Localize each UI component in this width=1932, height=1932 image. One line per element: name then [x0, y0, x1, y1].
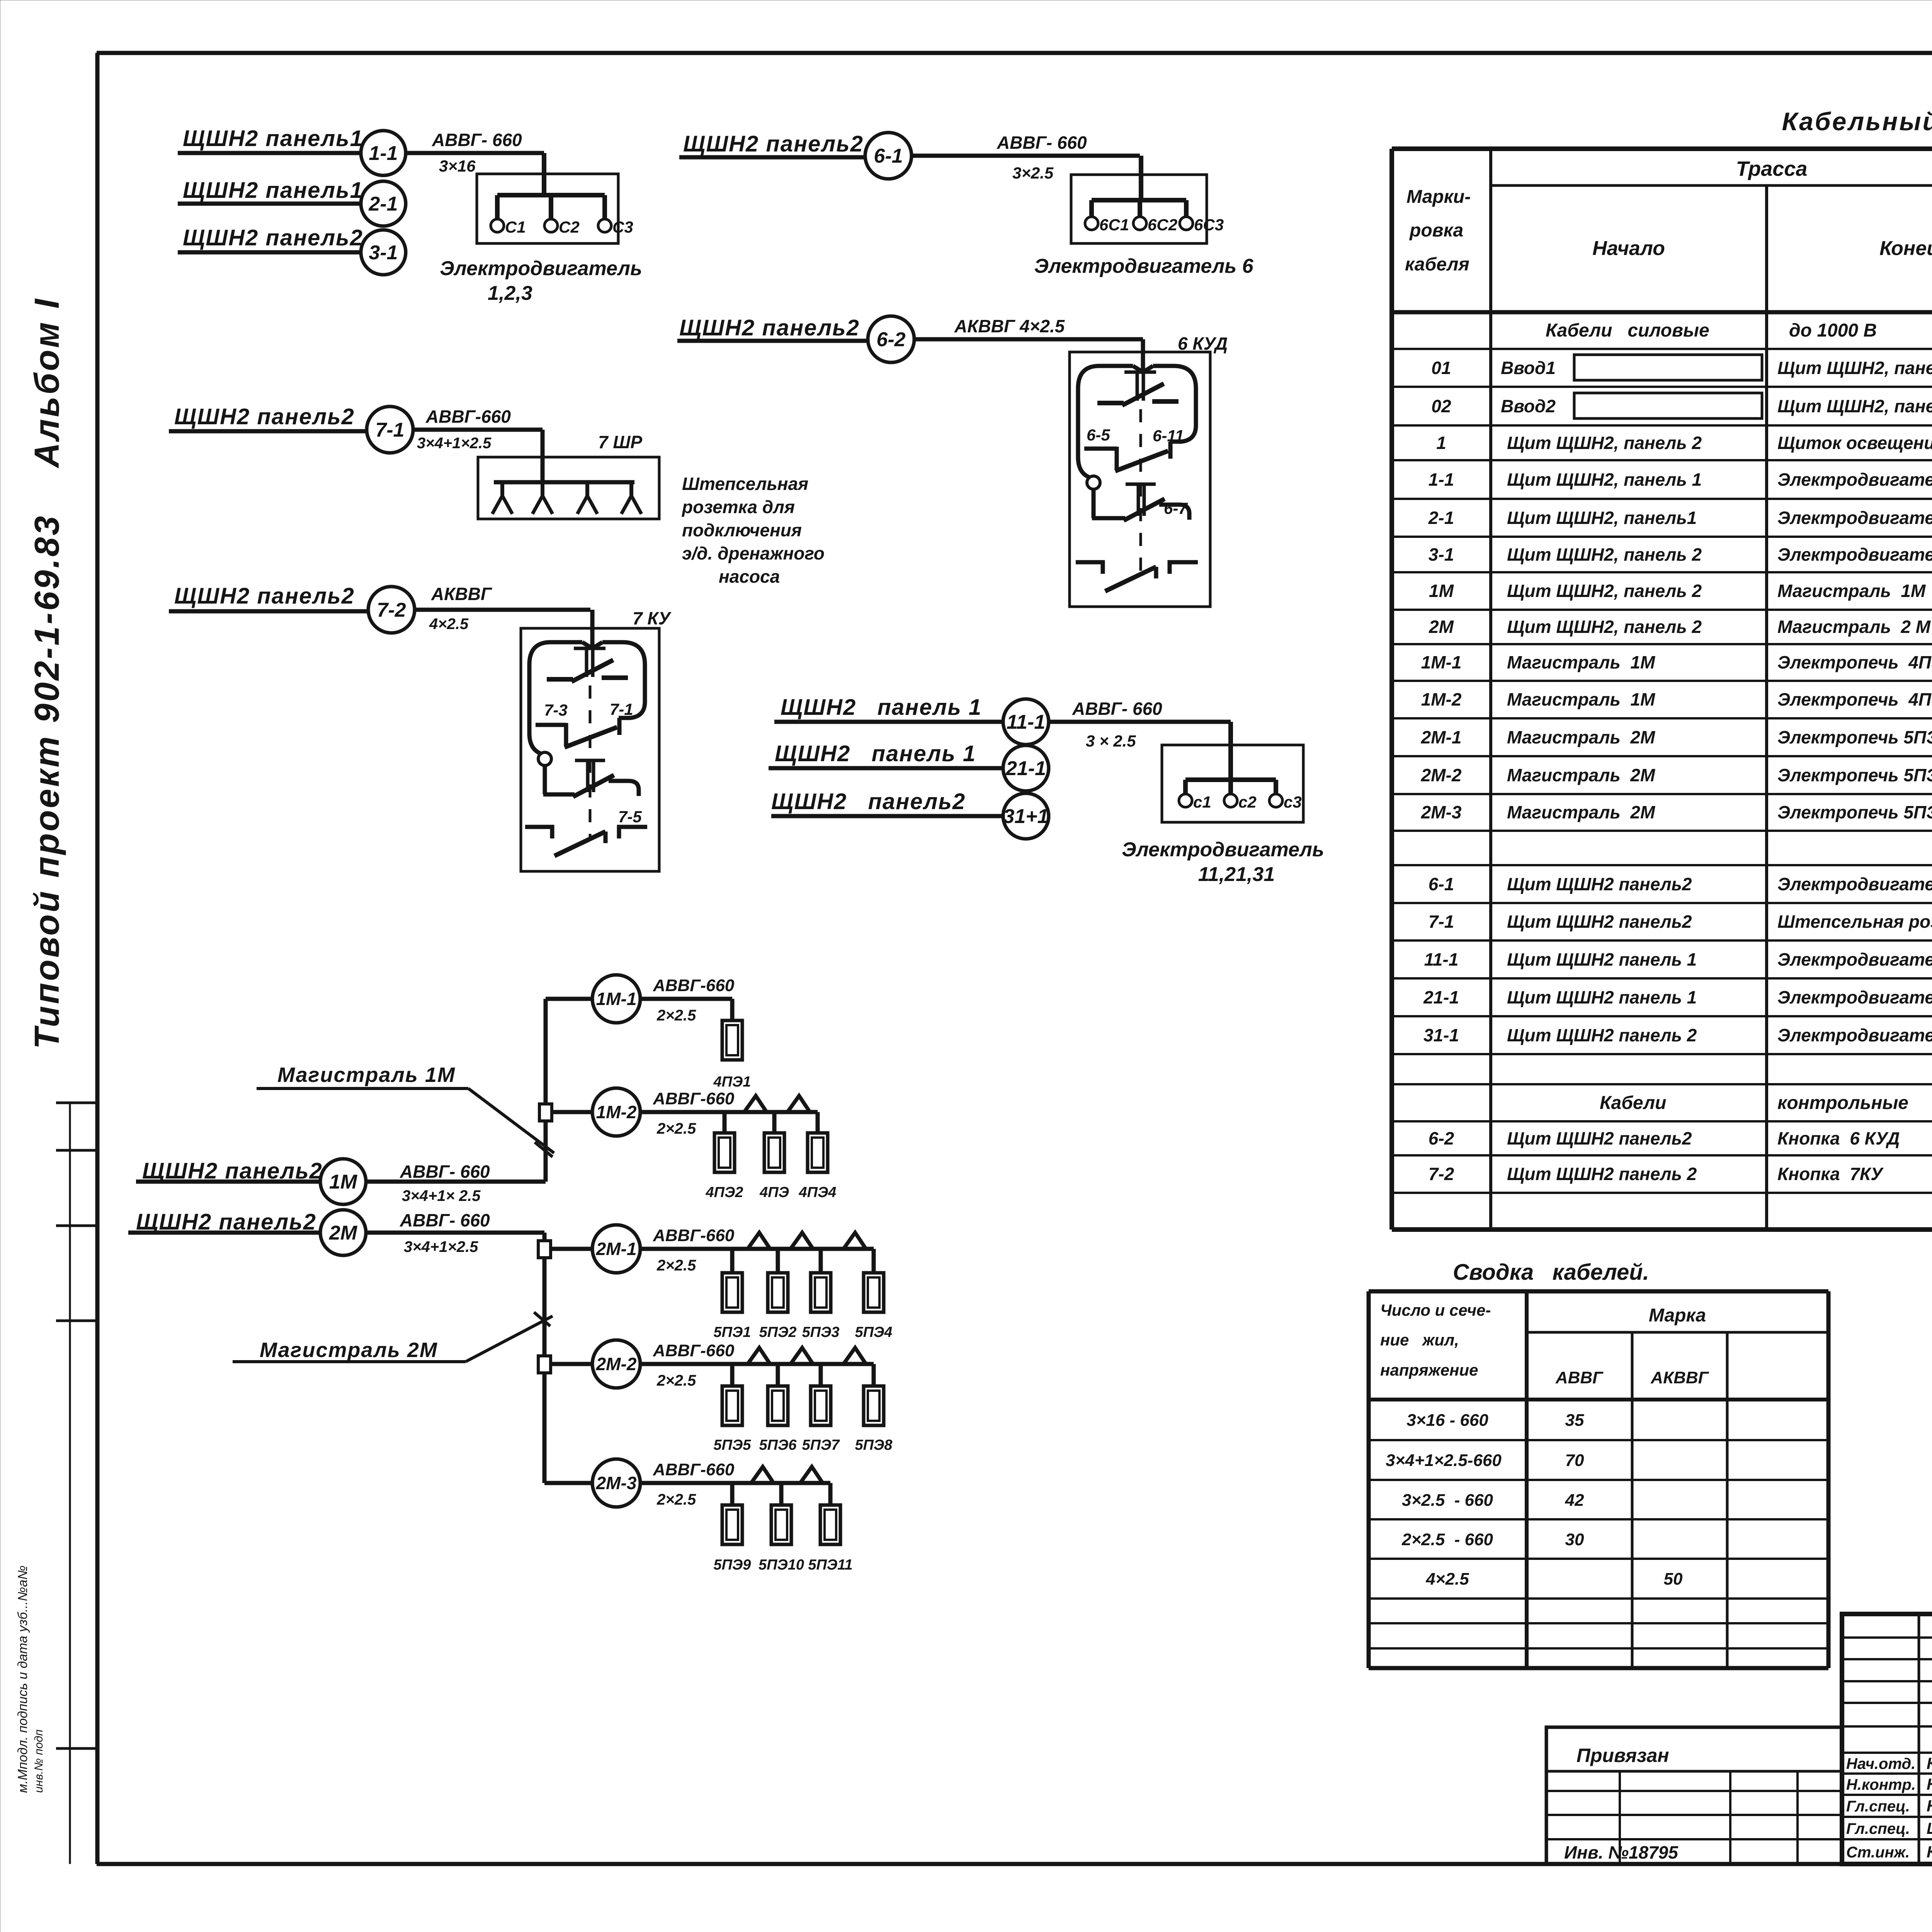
svg-text:4ПЭ1: 4ПЭ1	[713, 1074, 751, 1090]
svg-text:АКВВГ: АКВВГ	[1650, 1368, 1709, 1387]
svg-text:Кабели силовые: Кабели силовые	[1546, 320, 1709, 341]
svg-text:Н.контр.: Н.контр.	[1846, 1776, 1916, 1793]
svg-text:ЩШН2 панель2: ЩШН2 панель2	[771, 789, 966, 814]
svg-text:Кулагин: Кулагин	[1927, 1754, 1932, 1772]
svg-text:6-1: 6-1	[1429, 874, 1454, 894]
svg-text:3×16 - 660: 3×16 - 660	[1406, 1411, 1488, 1430]
svg-text:ЩШН2 панель2: ЩШН2 панель2	[174, 583, 355, 609]
svg-text:Магистраль 2 М: Магистраль 2 М	[1777, 617, 1931, 637]
svg-text:3×4+1× 2.5: 3×4+1× 2.5	[402, 1187, 481, 1204]
svg-text:АВВГ- 660: АВВГ- 660	[1072, 699, 1162, 719]
svg-text:5ПЭ6: 5ПЭ6	[759, 1437, 797, 1453]
svg-text:Магистраль 2М: Магистраль 2М	[1507, 727, 1656, 747]
svg-text:Щит ЩШН2 панель 2: Щит ЩШН2 панель 2	[1507, 1025, 1697, 1045]
svg-text:1-1: 1-1	[369, 142, 398, 165]
svg-text:С1: С1	[505, 218, 526, 236]
svg-text:6-5: 6-5	[1087, 426, 1110, 444]
svg-text:ЩШН2 панель1: ЩШН2 панель1	[183, 126, 363, 151]
svg-text:2М: 2М	[329, 1222, 358, 1244]
svg-text:с2: с2	[1238, 793, 1257, 811]
svg-text:6-7: 6-7	[1164, 499, 1188, 517]
svg-text:11,21,31: 11,21,31	[1198, 863, 1275, 886]
svg-text:6С3: 6С3	[1194, 216, 1224, 234]
svg-text:Число и сече-: Число и сече-	[1380, 1301, 1491, 1319]
svg-text:Щит ЩШН2 панель 1: Щит ЩШН2 панель 1	[1507, 987, 1697, 1007]
svg-text:ЩШН2 панель2: ЩШН2 панель2	[183, 225, 363, 250]
svg-text:Электропечь 4ПЭ2: Электропечь 4ПЭ2	[1777, 689, 1932, 709]
svg-text:2×2.5: 2×2.5	[656, 1007, 696, 1024]
svg-text:21-1: 21-1	[1005, 757, 1046, 780]
svg-text:1М-2: 1М-2	[596, 1102, 637, 1122]
svg-text:АВВГ: АВВГ	[1555, 1368, 1604, 1387]
svg-text:Щит ЩШН2, панель1: Щит ЩШН2, панель1	[1507, 508, 1697, 528]
svg-text:Ввод1: Ввод1	[1501, 358, 1556, 378]
svg-text:2×2.5 - 660: 2×2.5 - 660	[1401, 1530, 1493, 1549]
svg-text:э/д. дренажного: э/д. дренажного	[682, 543, 825, 563]
svg-text:Ввод2: Ввод2	[1501, 396, 1556, 416]
svg-text:Электродвигатель 2: Электродвигатель 2	[1777, 508, 1932, 528]
svg-text:Нач.отд.: Нач.отд.	[1846, 1755, 1915, 1772]
svg-text:АВВГ-660: АВВГ-660	[653, 1341, 735, 1360]
svg-text:Марки-: Марки-	[1406, 187, 1471, 207]
svg-text:1М-2: 1М-2	[1421, 689, 1462, 709]
svg-text:Щит ЩШН2, панель 1: Щит ЩШН2, панель 1	[1507, 469, 1702, 490]
svg-text:Электродвигатель: Электродвигатель	[1122, 838, 1324, 861]
svg-text:АВВГ-660: АВВГ-660	[653, 1460, 735, 1479]
svg-text:Электродвигатель 3: Электродвигатель 3	[1777, 544, 1932, 565]
svg-text:инв.№ подп: инв.№ подп	[32, 1730, 45, 1793]
svg-text:11-1: 11-1	[1424, 949, 1459, 969]
svg-text:контрольные: контрольные	[1777, 1093, 1908, 1113]
svg-text:Щит ЩШН2, панель 2: Щит ЩШН2, панель 2	[1507, 617, 1702, 637]
svg-text:01: 01	[1431, 358, 1451, 378]
svg-text:6-2: 6-2	[876, 328, 905, 351]
svg-text:Электропечь 4ПЭ1: Электропечь 4ПЭ1	[1777, 652, 1932, 672]
svg-text:Щит ЩШН2, панель 2: Щит ЩШН2, панель 2	[1507, 433, 1702, 453]
svg-text:5ПЭ5: 5ПЭ5	[714, 1437, 752, 1453]
svg-text:6 КУД: 6 КУД	[1178, 333, 1228, 354]
svg-text:Электропечь 5ПЭ1÷5ПЭ4: Электропечь 5ПЭ1÷5ПЭ4	[1777, 727, 1932, 747]
svg-text:до 1000 В: до 1000 В	[1789, 320, 1877, 341]
svg-text:1М: 1М	[329, 1171, 358, 1193]
svg-text:7-2: 7-2	[1429, 1164, 1454, 1184]
svg-text:31-1: 31-1	[1423, 1025, 1459, 1045]
svg-text:2×2.5: 2×2.5	[656, 1372, 696, 1389]
svg-text:Штепсельная розетка 7ШР: Штепсельная розетка 7ШР	[1777, 912, 1932, 932]
svg-text:АВВГ- 660: АВВГ- 660	[400, 1210, 490, 1230]
svg-text:ЩШН2 панель2: ЩШН2 панель2	[683, 131, 864, 156]
svg-text:7-2: 7-2	[377, 599, 406, 621]
svg-text:30: 30	[1565, 1530, 1584, 1549]
svg-text:Конец: Конец	[1879, 237, 1932, 260]
svg-text:6-1: 6-1	[874, 145, 903, 167]
svg-text:1М-1: 1М-1	[596, 989, 637, 1009]
svg-text:1: 1	[1436, 433, 1446, 453]
svg-text:ЩШН2 панель 1: ЩШН2 панель 1	[781, 695, 982, 720]
svg-text:Магистраль 1М: Магистраль 1М	[1507, 652, 1656, 672]
svg-text:2М-1: 2М-1	[1421, 727, 1462, 747]
svg-text:Королева: Королева	[1927, 1843, 1932, 1861]
svg-text:м.Мподл. подпись и дата узб...: м.Мподл. подпись и дата узб...№а№	[15, 1565, 30, 1793]
svg-text:7 КУ: 7 КУ	[633, 608, 672, 628]
svg-text:Магистраль 2М: Магистраль 2М	[1507, 765, 1656, 785]
svg-text:4ПЭ: 4ПЭ	[759, 1184, 789, 1201]
svg-text:7-3: 7-3	[544, 701, 568, 719]
svg-text:21-1: 21-1	[1423, 987, 1459, 1007]
svg-text:02: 02	[1431, 396, 1451, 416]
svg-text:ЩШН2 панель1: ЩШН2 панель1	[183, 178, 363, 203]
svg-text:с3: с3	[1284, 793, 1302, 811]
svg-text:1М-1: 1М-1	[1421, 652, 1462, 672]
svg-text:1-1: 1-1	[1429, 469, 1454, 490]
svg-text:Электропечь 5ПЭ5÷5ПЭ8: Электропечь 5ПЭ5÷5ПЭ8	[1777, 765, 1932, 785]
svg-text:2М-2: 2М-2	[1421, 765, 1462, 785]
svg-text:Гл.спец.: Гл.спец.	[1846, 1820, 1910, 1837]
svg-text:Кнопка 6 КУД: Кнопка 6 КУД	[1777, 1128, 1900, 1148]
svg-text:3×2.5: 3×2.5	[1012, 164, 1054, 182]
svg-text:5ПЭ11: 5ПЭ11	[808, 1557, 852, 1573]
svg-text:5ПЭ3: 5ПЭ3	[802, 1324, 840, 1340]
svg-text:АВВГ- 660: АВВГ- 660	[400, 1162, 490, 1182]
svg-text:3×16: 3×16	[439, 157, 476, 175]
svg-text:Электродвигатель 11: Электродвигатель 11	[1777, 949, 1932, 969]
svg-text:Магистраль 2М: Магистраль 2М	[260, 1338, 438, 1362]
svg-text:3×2.5 - 660: 3×2.5 - 660	[1402, 1491, 1493, 1510]
svg-text:2М-2: 2М-2	[596, 1354, 637, 1374]
svg-text:50: 50	[1664, 1570, 1683, 1588]
svg-text:С3: С3	[612, 218, 633, 236]
svg-text:35: 35	[1565, 1411, 1584, 1430]
svg-text:Кабельный журнал.: Кабельный журнал.	[1782, 107, 1932, 136]
svg-text:Электродвигатель: Электродвигатель	[440, 257, 642, 280]
svg-text:5ПЭ7: 5ПЭ7	[802, 1437, 840, 1453]
svg-text:Магистраль 2М: Магистраль 2М	[1507, 802, 1656, 822]
svg-text:4×2.5: 4×2.5	[429, 616, 469, 633]
svg-text:Кабели: Кабели	[1600, 1093, 1666, 1113]
svg-text:Электродвигатель 21: Электродвигатель 21	[1777, 987, 1932, 1007]
svg-text:11-1: 11-1	[1007, 711, 1045, 733]
svg-text:3×4+1×2.5: 3×4+1×2.5	[417, 435, 492, 452]
svg-text:5ПЭ2: 5ПЭ2	[759, 1324, 797, 1340]
svg-text:Щумилов: Щумилов	[1927, 1819, 1932, 1837]
svg-text:АВВГ-660: АВВГ-660	[653, 976, 735, 995]
svg-text:Щит ЩШН2, панель2: Щит ЩШН2, панель2	[1777, 396, 1932, 416]
svg-text:Щит ЩШН2 панель2: Щит ЩШН2 панель2	[1507, 912, 1692, 932]
svg-text:2М-1: 2М-1	[596, 1239, 637, 1259]
svg-text:ЩШН2 панель2: ЩШН2 панель2	[679, 315, 860, 340]
svg-text:Гл.спец.: Гл.спец.	[1846, 1798, 1910, 1815]
svg-text:Щит ЩШН2, панель1: Щит ЩШН2, панель1	[1777, 358, 1932, 378]
svg-text:Магистраль 1М: Магистраль 1М	[1777, 581, 1926, 601]
svg-text:6С2: 6С2	[1148, 216, 1177, 234]
svg-text:7-1: 7-1	[1429, 912, 1454, 932]
svg-text:2М-3: 2М-3	[1421, 802, 1462, 822]
svg-text:Ст.инж.: Ст.инж.	[1846, 1844, 1910, 1861]
svg-text:3×4+1×2.5-660: 3×4+1×2.5-660	[1386, 1451, 1502, 1470]
svg-text:подключения: подключения	[682, 520, 802, 540]
svg-text:розетка для: розетка для	[681, 497, 795, 517]
svg-text:1М: 1М	[1429, 581, 1454, 601]
svg-text:3-1: 3-1	[1429, 544, 1454, 565]
svg-text:насоса: насоса	[719, 566, 780, 587]
svg-text:Электродвигатель 31: Электродвигатель 31	[1777, 1025, 1932, 1045]
svg-text:7-1: 7-1	[610, 700, 633, 718]
svg-text:4ПЭ4: 4ПЭ4	[799, 1184, 837, 1201]
svg-text:Электропечь 5ПЭ9÷5ПЭ11: Электропечь 5ПЭ9÷5ПЭ11	[1777, 802, 1932, 822]
svg-text:Щит ЩШН2 панель 1: Щит ЩШН2 панель 1	[1507, 949, 1697, 969]
svg-text:5ПЭ1: 5ПЭ1	[714, 1324, 751, 1340]
svg-text:Щит ЩШН2 панель2: Щит ЩШН2 панель2	[1507, 874, 1692, 894]
svg-text:1,2,3: 1,2,3	[488, 282, 532, 304]
svg-text:Трасса: Трасса	[1736, 157, 1808, 180]
svg-text:3 × 2.5: 3 × 2.5	[1086, 732, 1136, 750]
svg-text:ровка: ровка	[1409, 220, 1463, 241]
svg-text:АКВВГ: АКВВГ	[431, 584, 492, 604]
svg-text:Электродвигатель 1: Электродвигатель 1	[1777, 469, 1932, 490]
svg-text:Типовой проект 902-1-69.83: Типовой проект 902-1-69.83 Альбом I	[28, 297, 66, 1049]
svg-text:6-11: 6-11	[1153, 427, 1184, 445]
svg-text:70: 70	[1565, 1451, 1584, 1470]
svg-text:ЩШН2 панель2: ЩШН2 панель2	[174, 404, 355, 429]
svg-text:5ПЭ4: 5ПЭ4	[855, 1324, 893, 1340]
svg-text:ЩШН2 панель 1: ЩШН2 панель 1	[775, 741, 976, 766]
svg-text:6С1: 6С1	[1099, 216, 1129, 234]
svg-text:Марка: Марка	[1649, 1305, 1706, 1326]
svg-text:Инв. №18795: Инв. №18795	[1564, 1842, 1679, 1862]
svg-text:С2: С2	[559, 218, 580, 236]
svg-text:5ПЭ8: 5ПЭ8	[855, 1437, 893, 1453]
svg-text:с1: с1	[1193, 793, 1211, 811]
svg-text:Сводка кабелей.: Сводка кабелей.	[1453, 1260, 1649, 1285]
svg-text:АКВВГ 4×2.5: АКВВГ 4×2.5	[954, 316, 1065, 336]
svg-text:Щит ЩШН2 панель 2: Щит ЩШН2 панель 2	[1507, 1164, 1697, 1184]
svg-text:Электродвигатель 6: Электродвигатель 6	[1777, 874, 1932, 894]
svg-text:Некрасов: Некрасов	[1927, 1797, 1932, 1815]
svg-text:кабеля: кабеля	[1405, 254, 1469, 275]
svg-text:6-2: 6-2	[1429, 1128, 1454, 1148]
svg-text:42: 42	[1565, 1491, 1584, 1510]
svg-text:2×2.5: 2×2.5	[656, 1491, 696, 1508]
svg-text:5ПЭ10: 5ПЭ10	[759, 1557, 804, 1573]
svg-text:Магистраль 1М: Магистраль 1М	[1507, 689, 1656, 709]
svg-text:4ПЭ2: 4ПЭ2	[706, 1184, 743, 1201]
svg-text:7-1: 7-1	[375, 419, 404, 441]
svg-text:3-1: 3-1	[369, 241, 398, 264]
svg-text:Начало: Начало	[1592, 237, 1665, 260]
svg-text:АВВГ-660: АВВГ-660	[425, 406, 511, 427]
svg-text:АВВГ-660: АВВГ-660	[653, 1226, 735, 1245]
svg-text:2-1: 2-1	[1428, 508, 1454, 528]
svg-text:АВВГ- 660: АВВГ- 660	[432, 130, 522, 150]
svg-text:Магистраль 1М: Магистраль 1М	[277, 1063, 456, 1087]
svg-text:2М: 2М	[1429, 617, 1454, 637]
svg-text:4×2.5: 4×2.5	[1425, 1570, 1469, 1588]
svg-text:Щит ЩШН2 панель2: Щит ЩШН2 панель2	[1507, 1128, 1692, 1148]
svg-text:31+1: 31+1	[1003, 805, 1048, 828]
svg-text:напряжение: напряжение	[1380, 1361, 1478, 1379]
svg-text:2М-3: 2М-3	[596, 1473, 637, 1493]
svg-text:7 ШР: 7 ШР	[598, 432, 642, 452]
svg-text:Привязан: Привязан	[1577, 1745, 1669, 1766]
svg-text:ние жил,: ние жил,	[1380, 1331, 1459, 1349]
svg-text:2×2.5: 2×2.5	[656, 1120, 696, 1137]
svg-text:2×2.5: 2×2.5	[656, 1257, 696, 1274]
svg-text:Штепсельная: Штепсельная	[682, 474, 808, 494]
svg-text:2-1: 2-1	[368, 193, 398, 215]
svg-text:7-5: 7-5	[618, 808, 642, 826]
svg-text:АВВГ- 660: АВВГ- 660	[997, 133, 1087, 153]
svg-text:Кнопка 7КУ: Кнопка 7КУ	[1777, 1164, 1884, 1184]
svg-text:Электродвигатель 6: Электродвигатель 6	[1034, 255, 1253, 277]
svg-text:АВВГ-660: АВВГ-660	[653, 1089, 735, 1108]
svg-text:Щит ЩШН2, панель 2: Щит ЩШН2, панель 2	[1507, 544, 1702, 565]
svg-text:3×4+1×2.5: 3×4+1×2.5	[404, 1238, 478, 1255]
svg-text:Щиток освещения ЩО: Щиток освещения ЩО	[1777, 433, 1932, 453]
svg-text:Некрасов: Некрасов	[1927, 1775, 1932, 1793]
svg-text:5ПЭ9: 5ПЭ9	[714, 1557, 751, 1573]
svg-text:Щит ЩШН2, панель 2: Щит ЩШН2, панель 2	[1507, 581, 1702, 601]
